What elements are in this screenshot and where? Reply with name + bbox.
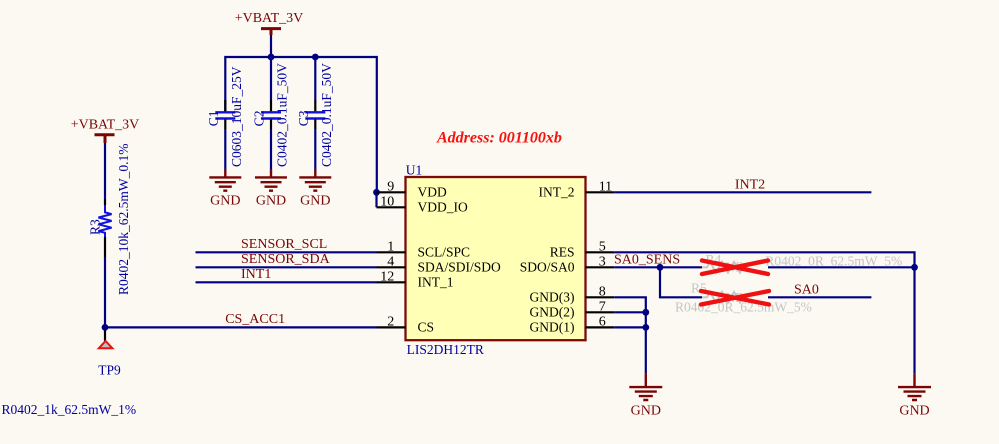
svg-text:3: 3 [599, 254, 606, 269]
svg-text:2: 2 [387, 314, 394, 329]
wire C3 to GND [314, 129, 316, 169]
junction pin 6 [642, 324, 649, 331]
svg-text:SCL/SPC: SCL/SPC [418, 245, 471, 260]
svg-text:GND: GND [631, 404, 661, 419]
wire INT1 [196, 281, 377, 283]
svg-text:10: 10 [380, 194, 394, 209]
pin 10 VDD_IO [377, 194, 468, 214]
svg-text:INT1: INT1 [241, 267, 271, 282]
wire pin 6 [614, 326, 646, 328]
svg-text:C0402_0.1uF_50V: C0402_0.1uF_50V [319, 63, 334, 167]
net label SENSOR_SCL [241, 237, 327, 252]
svg-text:RES: RES [550, 245, 575, 260]
wire RES to GND (right) [614, 252, 914, 373]
pin 12 INT_1 [377, 269, 454, 289]
svg-text:GND(1): GND(1) [530, 320, 575, 335]
svg-text:SENSOR_SDA: SENSOR_SDA [241, 252, 331, 267]
resistor R5 (not fitted) [675, 281, 812, 315]
capacitor C1 [206, 66, 244, 167]
power symbol +VBAT_3V (top) [235, 11, 304, 35]
svg-text:12: 12 [380, 269, 394, 284]
svg-text:INT_2: INT_2 [539, 185, 575, 200]
net label CS_ACC1 [225, 312, 285, 327]
svg-text:VDD: VDD [418, 185, 447, 200]
capacitor C2 [252, 57, 290, 167]
wire power to bus [270, 35, 272, 57]
svg-text:CS_ACC1: CS_ACC1 [225, 312, 285, 327]
svg-text:11: 11 [599, 179, 612, 194]
svg-text:SDA/SDI/SDO: SDA/SDI/SDO [418, 260, 502, 275]
net label SA0 [794, 282, 819, 297]
label Address [436, 130, 562, 147]
svg-text:7: 7 [599, 299, 606, 314]
wire INT2 [614, 191, 871, 193]
svg-text:SA0_SENS: SA0_SENS [614, 252, 680, 267]
net label SA0_SENS [614, 252, 680, 267]
svg-text:+VBAT_3V: +VBAT_3V [71, 117, 140, 132]
svg-text:1: 1 [387, 239, 394, 254]
svg-text:Address: 001100xb: Address: 001100xb [436, 130, 562, 147]
svg-text:C1: C1 [206, 111, 221, 127]
test point TP9 [98, 331, 121, 378]
wire C2 to GND [270, 129, 272, 169]
ground GND (center) [629, 374, 662, 419]
wire SENSOR_SCL [196, 251, 377, 253]
svg-text:SENSOR_SCL: SENSOR_SCL [241, 237, 327, 252]
svg-text:8: 8 [599, 284, 606, 299]
svg-text:VDD_IO: VDD_IO [418, 200, 468, 215]
pin 2 CS [377, 314, 435, 334]
svg-text:+VBAT_3V: +VBAT_3V [235, 11, 304, 26]
ground GND (C1) [209, 169, 241, 209]
svg-text:R3: R3 [88, 219, 103, 235]
svg-text:GND(3): GND(3) [530, 290, 575, 305]
pin 6 GND(1) [530, 314, 615, 334]
wire SENSOR_SDA [196, 266, 377, 268]
ground GND (right) [898, 374, 931, 419]
svg-text:GND: GND [300, 194, 330, 209]
svg-text:CS: CS [418, 320, 435, 335]
resistor R3 [88, 144, 132, 296]
junction pin 7 [642, 309, 649, 316]
value label R0402_1k_62.5mW_1% [2, 402, 137, 417]
svg-text:INT_1: INT_1 [418, 275, 454, 290]
pin 3 SDO/SA0 [520, 254, 615, 274]
svg-text:GND(2): GND(2) [530, 305, 575, 320]
svg-text:SDO/SA0: SDO/SA0 [520, 260, 575, 275]
junction SA0 node [657, 264, 664, 271]
svg-text:C2: C2 [252, 111, 267, 127]
pin 4 SDA/SDI/SDO [377, 254, 502, 274]
wire SDO/SA0 to R4 [614, 266, 702, 268]
net label INT2 [735, 177, 765, 192]
net label INT1 [241, 267, 271, 282]
wire CS_ACC1 [105, 326, 377, 328]
junction right rail [911, 264, 918, 271]
wire R5 to SA0 [768, 296, 871, 298]
pin 1 SCL/SPC [377, 239, 471, 259]
svg-text:LIS2DH12TR: LIS2DH12TR [407, 342, 484, 357]
svg-text:5: 5 [599, 239, 606, 254]
node VDD junction [373, 189, 380, 196]
ground GND (C2) [255, 169, 287, 209]
capacitor C3 [296, 57, 334, 167]
wire R3 to CS node [104, 257, 106, 327]
cross-out X over R5 [701, 291, 769, 305]
svg-text:C3: C3 [296, 110, 311, 126]
svg-text:GND: GND [256, 194, 286, 209]
wire top bus [225, 57, 376, 192]
svg-text:6: 6 [599, 314, 606, 329]
svg-text:4: 4 [387, 254, 394, 269]
ground GND (C3) [299, 169, 331, 209]
svg-text:GND: GND [899, 404, 929, 419]
svg-text:R0402_0R_62.5mW_5%: R0402_0R_62.5mW_5% [765, 253, 902, 268]
svg-text:U1: U1 [406, 162, 423, 177]
svg-text:SA0: SA0 [794, 282, 819, 297]
junction node TP9/CS [102, 324, 109, 331]
wire C1 to GND [224, 129, 226, 169]
power symbol +VBAT_3V (left) [71, 117, 140, 143]
wire from +VBAT_3V to R3 [104, 143, 106, 199]
op-amp U1 body [406, 162, 586, 357]
svg-text:GND: GND [210, 194, 240, 209]
svg-text:R0402_1k_62.5mW_1%: R0402_1k_62.5mW_1% [2, 402, 137, 417]
svg-text:R0402_0R_62.5mW_5%: R0402_0R_62.5mW_5% [675, 300, 812, 315]
svg-text:INT2: INT2 [735, 177, 765, 192]
net label SENSOR_SDA [241, 252, 331, 267]
wire SA0 node down to R5 [660, 267, 702, 297]
svg-text:9: 9 [387, 179, 394, 194]
svg-text:C0603_10uF_25V: C0603_10uF_25V [229, 66, 244, 167]
pin 9 VDD [377, 179, 447, 199]
pin 8 GND(3) [530, 284, 615, 304]
pin 11 INT_2 [539, 179, 615, 199]
wire VDD to VDD_IO [375, 192, 377, 207]
svg-text:R0402_10k_62.5mW_0.1%: R0402_10k_62.5mW_0.1% [116, 144, 131, 296]
wire pin 7 [614, 311, 646, 313]
junction C3 [312, 54, 319, 61]
pin 5 RES [550, 239, 615, 259]
cross-out X over R4 [702, 261, 768, 275]
svg-text:TP9: TP9 [98, 362, 121, 377]
wire GND pins to GND [614, 297, 646, 373]
resistor R4 (not fitted) [702, 252, 902, 275]
pin 7 GND(2) [530, 299, 615, 319]
wire R4 to right rail [768, 266, 915, 268]
svg-text:C0402_0.1uF_50V: C0402_0.1uF_50V [275, 63, 290, 167]
junction C2/power [268, 54, 275, 61]
